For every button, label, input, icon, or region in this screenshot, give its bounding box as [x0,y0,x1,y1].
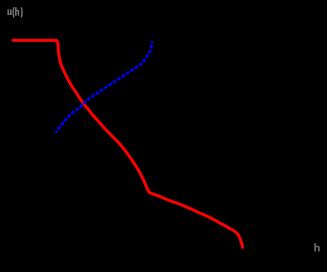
red curve u(h) solid [13,40,242,247]
blue dashed curve [56,41,153,133]
axis label u(h) drawn as vector glyphs [7,7,22,17]
axis label h drawn as vector glyphs [314,243,319,251]
